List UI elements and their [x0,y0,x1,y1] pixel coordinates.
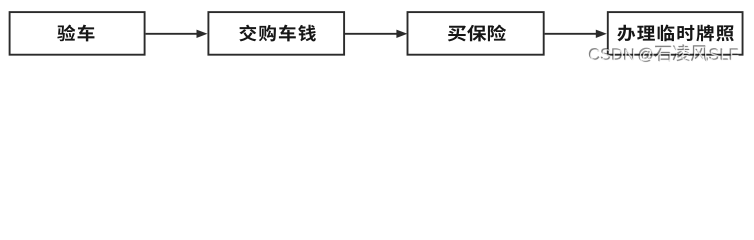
watermark CSDN @石凌风SLF white text [590,45,739,62]
watermark shadow inner copy [589,45,738,62]
box 验车 [10,12,145,55]
box 买保险 [408,12,544,55]
watermark CSDN @石凌风SLF shadow [589,44,738,61]
arrow 2 [345,30,407,38]
label 验车 [57,25,94,42]
arrow 1 [146,30,208,38]
box 交购车钱 [208,12,344,55]
arrow 3 [545,30,607,38]
box 办理临时牌照 [608,12,743,55]
label 买保险 [448,25,506,42]
label 交购车钱 [239,25,316,42]
label 办理临时牌照 [617,25,733,42]
